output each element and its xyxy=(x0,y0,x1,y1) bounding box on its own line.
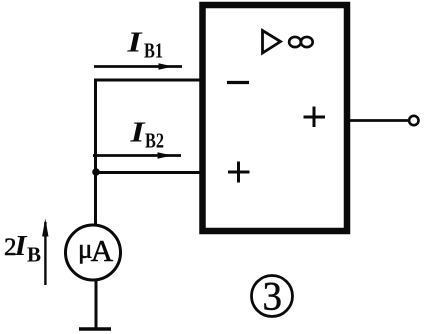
ammeter M1 label microA xyxy=(78,233,114,268)
op-amp U1 body xyxy=(203,5,348,231)
current label IB2 xyxy=(129,118,164,153)
figure number circled 3 xyxy=(252,274,293,319)
svg-text:3: 3 xyxy=(263,274,283,319)
wire output xyxy=(348,119,408,122)
current label IB1 xyxy=(126,28,163,63)
ammeter M1 circle xyxy=(66,225,121,280)
svg-text:A: A xyxy=(91,233,114,268)
wire non-inverting input horizontal xyxy=(94,171,203,174)
wire meter to ground xyxy=(95,281,98,328)
svg-text:B2: B2 xyxy=(145,129,164,153)
op-amp non-inverting input plus sign xyxy=(228,162,250,183)
svg-text:B1: B1 xyxy=(144,39,163,63)
op-amp gain symbol triangle xyxy=(263,31,281,54)
label 2IB xyxy=(4,231,41,267)
current arrow IB1 xyxy=(94,63,182,70)
current arrow 2IB upward xyxy=(42,219,48,286)
op-amp output plus sign xyxy=(304,107,326,128)
output terminal circle xyxy=(409,116,418,125)
wire left vertical xyxy=(94,79,97,226)
node junction dot xyxy=(92,168,100,176)
svg-text:I: I xyxy=(13,231,27,262)
svg-text:B: B xyxy=(27,243,41,267)
svg-text:I: I xyxy=(126,28,143,59)
wire inverting input horizontal xyxy=(94,79,203,82)
current arrow IB2 xyxy=(93,152,181,159)
op-amp infinity gain label xyxy=(289,37,313,47)
op-amp inverting input minus sign xyxy=(227,81,249,84)
ground symbol xyxy=(79,327,111,331)
svg-text:I: I xyxy=(129,118,146,149)
